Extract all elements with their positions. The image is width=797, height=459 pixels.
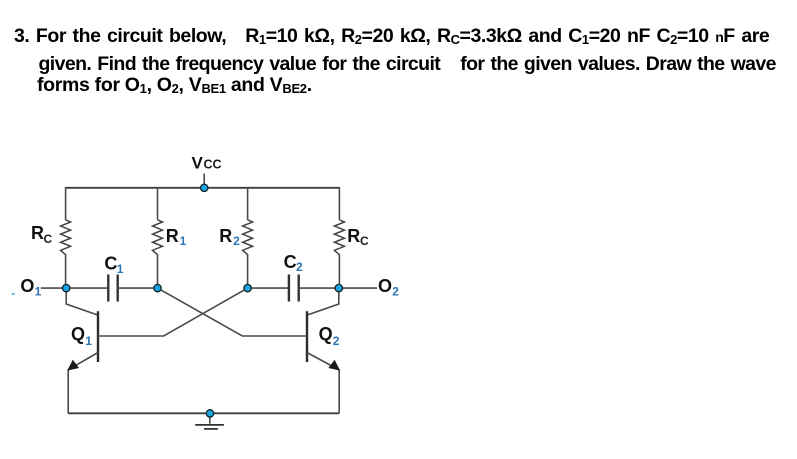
label C1 xyxy=(104,254,123,276)
title line 2 xyxy=(39,53,776,76)
ground xyxy=(195,417,224,429)
svg-text:1: 1 xyxy=(35,285,42,299)
svg-text:C: C xyxy=(104,254,117,274)
wire: Vcc stub xyxy=(203,174,205,188)
svg-text:2: 2 xyxy=(333,334,340,348)
label Q2 xyxy=(319,324,340,348)
wire: bottom rail xyxy=(68,412,339,414)
label C2 xyxy=(284,252,303,274)
node ground (dot) xyxy=(206,410,213,417)
stray mark xyxy=(12,293,15,295)
svg-text:1: 1 xyxy=(180,234,187,248)
svg-text:R: R xyxy=(347,226,360,246)
svg-text:Q: Q xyxy=(71,324,85,344)
node B (R2 bottom, dot) xyxy=(244,284,251,291)
svg-text:R: R xyxy=(166,226,179,246)
wire: node R2 to C2 xyxy=(248,287,289,289)
wire: top rail xyxy=(66,187,340,189)
label R1 xyxy=(166,226,187,248)
label VCC xyxy=(192,153,222,172)
arrow Q2 emitter xyxy=(328,360,340,371)
svg-text:2: 2 xyxy=(296,260,303,274)
svg-text:Q: Q xyxy=(319,324,333,344)
svg-text:O: O xyxy=(378,276,392,296)
wire: Q2 base cross-couple to node A xyxy=(158,288,308,336)
node VCC (dot) xyxy=(201,184,208,191)
wire: O1 lead xyxy=(41,287,109,289)
resistor R2 xyxy=(243,220,253,255)
wire: Q1 collector xyxy=(66,288,98,315)
resistor RC (left) xyxy=(61,220,71,255)
title line 1 xyxy=(14,25,769,48)
transistor Q1 base bar xyxy=(97,311,99,362)
svg-text:V: V xyxy=(192,153,204,172)
svg-text:R: R xyxy=(31,223,44,243)
arrow Q1 emitter xyxy=(67,360,79,371)
wire: R1 top xyxy=(157,187,159,220)
node A (R1 bottom, dot) xyxy=(154,284,161,291)
capacitor C1 xyxy=(108,275,117,302)
svg-text:C: C xyxy=(44,232,53,246)
svg-text:C: C xyxy=(284,252,297,272)
svg-text:O: O xyxy=(20,276,34,296)
svg-text:CC: CC xyxy=(204,158,222,172)
wire: R1 bottom xyxy=(157,254,159,288)
wire: R2 top xyxy=(247,187,249,220)
node O2 (dot) xyxy=(335,284,342,291)
title line 3 xyxy=(37,74,312,97)
wire: Q1 emitter xyxy=(68,353,98,414)
wire: left RC top xyxy=(65,187,67,220)
wire: right RC top xyxy=(338,187,340,220)
label Q1 xyxy=(71,324,92,348)
label RC right xyxy=(347,226,369,248)
wire: Q2 emitter xyxy=(307,353,339,414)
capacitor C2 xyxy=(289,275,299,302)
wire: Q2 collector xyxy=(307,288,339,315)
resistor RC (right) xyxy=(334,220,344,255)
svg-text:2: 2 xyxy=(392,285,399,299)
wire: left RC bottom xyxy=(65,254,67,288)
resistor R1 xyxy=(153,220,163,255)
label R2 xyxy=(219,226,240,248)
wire: C2 to node O2 xyxy=(299,287,377,289)
label RC left xyxy=(31,223,53,246)
wire: R2 bottom xyxy=(247,254,249,288)
svg-text:1: 1 xyxy=(85,334,92,348)
node O1 (dot) xyxy=(62,284,69,291)
svg-text:2: 2 xyxy=(233,234,240,248)
svg-text:1: 1 xyxy=(117,262,124,276)
wire: Q1 base cross-couple to node B xyxy=(98,288,248,336)
wire: C1 to node R1 xyxy=(118,287,158,289)
transistor Q2 base bar xyxy=(306,311,308,362)
svg-text:R: R xyxy=(219,226,232,246)
svg-text:C: C xyxy=(360,234,369,248)
label O1 xyxy=(20,276,41,299)
label O2 xyxy=(378,276,399,299)
wire: right RC bottom xyxy=(338,254,340,288)
